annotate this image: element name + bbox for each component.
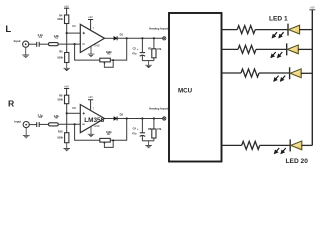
svg-text:LED 20: LED 20 bbox=[286, 158, 309, 165]
svg-text:R9: R9 bbox=[59, 94, 63, 98]
wire MCU to R11 bbox=[222, 29, 238, 31]
node bias junction L bbox=[66, 32, 68, 34]
svg-text:U2: U2 bbox=[72, 106, 76, 110]
ground (op-amp U1) bbox=[88, 47, 95, 57]
svg-text:+5V: +5V bbox=[310, 6, 315, 9]
resistor R1 4.7k bbox=[49, 43, 59, 46]
svg-text:+9V: +9V bbox=[88, 15, 93, 19]
resistor R12 bbox=[238, 45, 256, 53]
LED 2 light arrows bbox=[271, 52, 282, 58]
node bias junction R bbox=[66, 112, 68, 114]
svg-text:47u: 47u bbox=[132, 132, 137, 136]
resistor R13 bbox=[241, 69, 259, 77]
wire op-amp output to D1 bbox=[105, 37, 114, 39]
capacitor C2 47u bbox=[132, 38, 145, 60]
svg-text:C2: C2 bbox=[133, 46, 137, 50]
svg-text:L: L bbox=[5, 24, 11, 35]
connector analog input L bbox=[163, 37, 166, 40]
node minus-input junction L bbox=[74, 43, 76, 45]
wire bias node to plus input bbox=[67, 32, 81, 34]
wire bias node down to R10 (crosses signal) bbox=[66, 113, 68, 132]
wire feedback from minus node down and right to R7 bbox=[75, 124, 100, 140]
svg-text:D2: D2 bbox=[120, 113, 124, 117]
connector J1 L input bbox=[23, 41, 29, 47]
MCU block bbox=[169, 13, 222, 162]
wire feedback from minus node down and right to R2 bbox=[75, 44, 100, 60]
wire LED 1 to bus bbox=[299, 29, 312, 31]
svg-text:GND: GND bbox=[94, 45, 100, 48]
svg-text:47u: 47u bbox=[132, 51, 137, 55]
resistor R4 100k bbox=[65, 15, 69, 24]
resistor R9 100k bbox=[65, 95, 69, 104]
LED 3 light arrows bbox=[274, 76, 285, 82]
wire LED supply bus bbox=[311, 10, 313, 146]
ground (input L) bbox=[22, 47, 29, 57]
wire R9 to bias node bbox=[66, 104, 68, 114]
wire LED 3 to bus bbox=[301, 72, 313, 74]
connector J2 R input bbox=[23, 122, 29, 128]
LED 3 bbox=[290, 67, 302, 79]
svg-text:100k: 100k bbox=[57, 97, 63, 101]
wire bias node to plus input R bbox=[67, 112, 81, 114]
svg-text:100k: 100k bbox=[57, 55, 63, 59]
svg-text:100k: 100k bbox=[57, 17, 63, 21]
wire LED 20 to bus bbox=[301, 144, 312, 146]
svg-text:+9V: +9V bbox=[88, 95, 93, 99]
svg-text:R: R bbox=[8, 98, 15, 108]
resistor R5 100k bbox=[65, 53, 69, 63]
wire R1 to op-amp minus input bbox=[58, 43, 80, 45]
wire R11 to LED 1 bbox=[255, 29, 288, 31]
capacitor C3 2.2u bbox=[37, 122, 40, 127]
wire C4 R8 common bottom bbox=[142, 140, 154, 142]
resistor R14 bbox=[242, 141, 260, 149]
potentiometer R2 100k bbox=[100, 50, 114, 67]
capacitor C4 47u bbox=[132, 119, 145, 141]
svg-text:R4: R4 bbox=[59, 13, 63, 17]
svg-text:LM358: LM358 bbox=[84, 117, 104, 124]
svg-text:C4: C4 bbox=[133, 127, 137, 131]
LED 20 bbox=[290, 139, 302, 151]
svg-text:U1: U1 bbox=[72, 24, 76, 28]
node R3 tap L bbox=[153, 37, 155, 39]
ground (C4 R8) bbox=[145, 141, 151, 148]
wire MCU to R12 bbox=[222, 48, 239, 50]
wire feedback riser L bbox=[110, 38, 126, 60]
LED 1 light arrows bbox=[272, 32, 283, 38]
svg-text:Analog Input: Analog Input bbox=[149, 107, 168, 111]
resistor R3 47k bbox=[148, 38, 162, 60]
wire R6 to op-amp minus input bbox=[58, 123, 80, 125]
wire R13 to LED 3 bbox=[259, 72, 290, 74]
svg-text:100k: 100k bbox=[57, 136, 63, 140]
wire D1 to analog connector bbox=[117, 37, 162, 39]
op-amp U2 LM358 bbox=[72, 105, 104, 133]
LED 1 bbox=[288, 24, 300, 36]
LED 20 light arrows bbox=[274, 148, 285, 154]
svg-text:R5: R5 bbox=[59, 49, 63, 53]
wire R12 to LED 2 bbox=[256, 48, 287, 50]
wire C3 to R6 bbox=[39, 123, 49, 125]
resistor R8 47k bbox=[148, 119, 162, 141]
svg-text:Input: Input bbox=[14, 120, 21, 124]
svg-text:R1: R1 bbox=[55, 36, 59, 40]
ground (input R) bbox=[23, 128, 30, 138]
diode D2 bbox=[114, 113, 124, 121]
svg-text:GND: GND bbox=[94, 125, 100, 128]
diode D1 bbox=[114, 33, 124, 41]
svg-text:R2: R2 bbox=[107, 52, 111, 56]
svg-text:47k: 47k bbox=[157, 47, 162, 51]
svg-text:Input: Input bbox=[14, 39, 21, 43]
svg-text:R6: R6 bbox=[55, 116, 59, 120]
svg-text:LED 1: LED 1 bbox=[269, 16, 288, 23]
node R8 tap R bbox=[153, 117, 155, 119]
svg-text:R8: R8 bbox=[148, 127, 152, 131]
wire op-amp output to D2 bbox=[105, 118, 114, 120]
wire LED 2 to bus bbox=[298, 48, 312, 50]
wire R14 to LED 20 bbox=[260, 144, 291, 146]
wire MCU to R13 bbox=[222, 72, 242, 74]
ground (C2 R3) bbox=[145, 61, 151, 68]
connector analog input R bbox=[163, 117, 166, 120]
node output feedback tap L bbox=[126, 37, 128, 39]
svg-text:47k: 47k bbox=[157, 127, 162, 131]
potentiometer R7 100k bbox=[100, 130, 114, 147]
capacitor C1 2.2u bbox=[37, 42, 40, 47]
wire R4 to bias node bbox=[66, 24, 68, 34]
LED 2 bbox=[287, 43, 299, 55]
wire bias node down to R5 (crosses signal) bbox=[66, 33, 68, 52]
wire input to C1 bbox=[29, 43, 37, 45]
wire input to C3 bbox=[29, 124, 37, 126]
ground (op-amp U2) bbox=[88, 127, 95, 137]
svg-text:MCU: MCU bbox=[178, 88, 193, 95]
node C4 tap R bbox=[141, 117, 143, 119]
resistor R11 bbox=[237, 26, 255, 34]
wire C2 R3 common bottom bbox=[142, 60, 154, 62]
svg-text:R3: R3 bbox=[148, 47, 152, 51]
svg-text:C1: C1 bbox=[39, 35, 43, 39]
wire MCU to R14 bbox=[222, 144, 242, 146]
resistor R6 4.7k bbox=[49, 123, 59, 126]
resistor R10 100k bbox=[65, 133, 69, 143]
wire D2 to analog connector R bbox=[117, 118, 162, 120]
svg-text:R10: R10 bbox=[58, 130, 63, 134]
wire C1 to R1 bbox=[39, 43, 49, 45]
wire feedback riser R bbox=[110, 119, 126, 141]
svg-text:Analog Input: Analog Input bbox=[149, 26, 168, 30]
ground (R5) bbox=[64, 63, 70, 71]
node C2 tap L bbox=[141, 37, 143, 39]
svg-text:D1: D1 bbox=[120, 33, 124, 37]
ground (R10) bbox=[64, 143, 70, 151]
svg-text:R7: R7 bbox=[107, 132, 111, 136]
node output feedback tap R bbox=[126, 117, 128, 119]
svg-text:+9V: +9V bbox=[64, 4, 69, 8]
svg-text:C3: C3 bbox=[39, 115, 43, 119]
op-amp U1 bbox=[72, 24, 104, 53]
node minus-input junction R bbox=[74, 123, 76, 125]
